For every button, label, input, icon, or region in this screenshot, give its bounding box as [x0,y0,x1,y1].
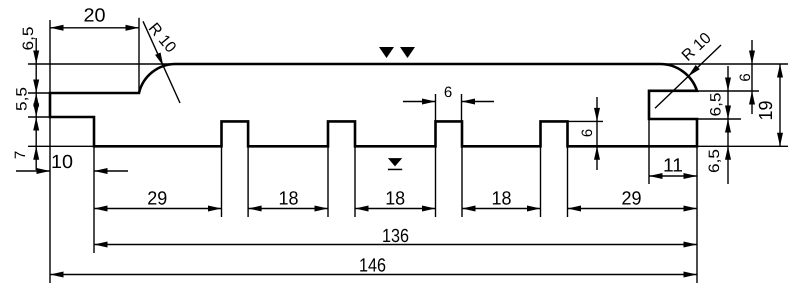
svg-text:6,5: 6,5 [706,149,723,173]
bottom face extension left [28,145,94,147]
left dim column 6,5 / 5,5 / 7 [35,38,37,170]
dim 19 [779,64,781,146]
R10 leader right [655,45,721,108]
svg-text:11: 11 [663,156,683,177]
svg-text:6: 6 [737,73,754,81]
groove4 top extension [568,120,604,122]
svg-text:7: 7 [12,151,29,159]
dim 11 [649,175,697,177]
svg-text:18: 18 [385,189,405,210]
dim 18 c [462,208,541,210]
svg-text:6,5: 6,5 [20,27,37,51]
dim 18 a [248,208,328,210]
extension line x=648.5 (right notch) [648,120,650,184]
dim 6 right top [751,40,753,114]
left tongue bottom extension [28,116,50,118]
svg-text:6: 6 [579,129,596,137]
svg-text:18: 18 [492,189,512,210]
top face extension line right [659,63,788,65]
dim 29 right [568,208,698,210]
R10 leader left [143,21,180,103]
groove3 wall extensions [435,94,437,121]
svg-text:6: 6 [444,84,452,101]
svg-text:6,5: 6,5 [708,93,725,117]
extension line x=50 [49,20,51,92]
svg-text:10: 10 [51,152,73,173]
left ledge extension [28,92,50,94]
extension line x=695 (right edge) [696,147,698,283]
groove2 wall extensions [327,147,329,217]
top face extension line left [28,63,176,65]
svg-text:5,5: 5,5 [14,87,31,111]
svg-text:29: 29 [147,189,167,210]
dim 146 [50,274,697,276]
svg-text:20: 20 [84,5,106,26]
dim 10 [16,170,50,172]
dim 20 [50,27,139,29]
bottom face extension right [697,145,788,147]
svg-text:136: 136 [382,226,409,247]
dim 6 groove4 depth [596,97,598,170]
dim 18 b [355,208,436,210]
svg-text:18: 18 [279,189,299,210]
profile outline (board cross-section, thick) [50,64,697,146]
surface mark triangles top [379,47,394,58]
right tongue bottom extension [697,118,741,120]
extension line x=139 (fillet start) [138,18,140,92]
groove4 wall extensions [540,147,542,217]
surface mark triangle bottom with underline [388,158,402,166]
svg-text:146: 146 [359,256,386,277]
right tongue top extension [697,90,759,92]
groove1 wall extensions [221,147,223,217]
dim 6 groove3 width [403,101,436,103]
svg-text:29: 29 [622,189,642,210]
right dim column 6,5 / 6,5 [727,66,729,184]
dim 29 left [94,208,222,210]
dim 136 [94,244,697,246]
svg-text:19: 19 [756,101,777,121]
extension line x=94 [93,147,95,253]
